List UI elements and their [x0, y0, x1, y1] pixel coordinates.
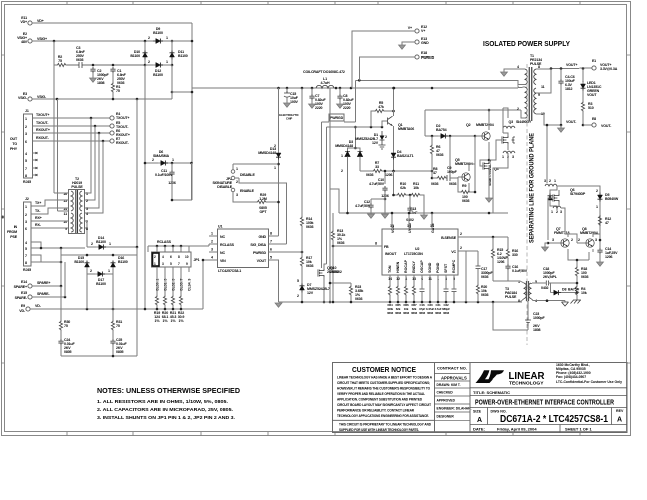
customer notice body text [337, 376, 433, 419]
resistor R8 47 [432, 177, 436, 179]
svg-text:SEPARATING LINE FOR GROUND PLA: SEPARATING LINE FOR GROUND PLANE [529, 133, 536, 243]
svg-text:8: 8 [518, 299, 520, 303]
connector J1 RJ45 [24, 114, 33, 178]
svg-text:SGND: SGND [428, 262, 432, 273]
svg-text:3: 3 [544, 179, 546, 183]
svg-text:SPARE-: SPARE- [15, 296, 28, 300]
svg-text:TECHNOLOGY APPLICATIONS ENGINE: TECHNOLOGY APPLICATIONS ENGINEERING FOR … [337, 414, 429, 418]
svg-text:3: 3 [162, 262, 164, 266]
svg-text:JP1: JP1 [194, 258, 200, 262]
svg-text:B-SENSE: B-SENSE [441, 236, 457, 240]
wire Q1 emitter feed to R10 [393, 171, 395, 195]
resistor R4 10k [576, 277, 578, 285]
wire bridge left leg [144, 41, 146, 65]
svg-text:2: 2 [596, 189, 598, 193]
svg-text:3: 3 [560, 210, 562, 214]
svg-text:1: 1 [108, 269, 110, 273]
ground R4 hatch [571, 300, 582, 304]
svg-text:4.7uH: 4.7uH [320, 81, 330, 85]
svg-text:DATE:: DATE: [473, 427, 485, 432]
svg-text:POWER-OVER-ETHERNET INTERFACE: POWER-OVER-ETHERNET INTERFACE CONTROLLER [475, 398, 614, 407]
svg-text:0603: 0603 [419, 311, 425, 315]
ground bus y302 [279, 301, 523, 303]
svg-text:Friday, April 09, 2004: Friday, April 09, 2004 [497, 427, 537, 432]
capacitor C13 4.7nF [409, 195, 411, 206]
svg-text:0603: 0603 [435, 311, 441, 315]
svg-text:RJ45: RJ45 [23, 180, 31, 184]
resistor R22 30.9 [179, 295, 182, 306]
svg-text:0603: 0603 [436, 153, 444, 157]
capacitor C8 [339, 88, 341, 94]
svg-text:0603: 0603 [411, 311, 417, 315]
svg-text:48V: 48V [21, 40, 28, 44]
svg-text:1. ALL RESISTORS ARE IN OHMS,: 1. ALL RESISTORS ARE IN OHMS, 1/10W, 5%,… [97, 399, 228, 405]
svg-text:TECHNOLOGY: TECHNOLOGY [509, 380, 544, 385]
svg-text:1: 1 [554, 179, 556, 183]
diode D12 B1100 [145, 64, 153, 66]
svg-text:CLS4_9: CLS4_9 [188, 278, 192, 291]
svg-text:1: 1 [211, 232, 213, 236]
svg-text:2: 2 [148, 60, 150, 64]
svg-text:LINEAR TECHNOLOGY HAS MADE A B: LINEAR TECHNOLOGY HAS MADE A BEST EFFORT… [337, 376, 433, 380]
svg-text:RXOUT-: RXOUT- [116, 141, 130, 145]
svg-text:2: 2 [460, 246, 462, 250]
svg-text:1000pF: 1000pF [533, 316, 545, 320]
svg-text:E18: E18 [421, 51, 427, 55]
svg-text:0603: 0603 [355, 297, 363, 301]
wire main top bus y88 [192, 87, 516, 89]
border tick marks bottom [67, 432, 580, 436]
svg-text:DC671A-2 * LTC4257CS8-1: DC671A-2 * LTC4257CS8-1 [500, 413, 608, 425]
svg-text:ENDLY: ENDLY [412, 261, 416, 273]
wire VOUT- to E8 [583, 124, 592, 126]
svg-text:CUSTOMER NOTICE: CUSTOMER NOTICE [352, 365, 416, 374]
svg-text:0603: 0603 [581, 275, 589, 279]
customer notice separator [333, 419, 435, 421]
svg-text:FROM: FROM [7, 230, 17, 234]
svg-text:1: 1 [172, 158, 174, 162]
lower bridge diode D17 B1100 [87, 273, 113, 275]
wire right rail x600 [557, 186, 600, 240]
svg-text:VD-: VD- [19, 309, 26, 313]
wire bias bus y213 [330, 189, 508, 213]
svg-text:GND: GND [421, 41, 429, 45]
svg-text:1: 1 [154, 262, 156, 266]
svg-text:2: 2 [25, 125, 27, 129]
wire T1 sec tap [536, 69, 551, 94]
svg-text:Fax: (408)434-0507: Fax: (408)434-0507 [556, 375, 586, 379]
svg-text:4: 4 [211, 256, 213, 260]
svg-text:1: 1 [596, 205, 598, 209]
wire J2 spare pins [31, 242, 85, 262]
svg-text:VSIG-: VSIG- [37, 95, 47, 99]
wire down to R2 [54, 41, 56, 65]
svg-text:APPROVALS: APPROVALS [441, 376, 467, 381]
J1 nc stubs [33, 153, 38, 175]
svg-text:9: 9 [186, 262, 188, 266]
terminal E18 PWRGD [415, 55, 419, 59]
svg-text:4: 4 [162, 255, 164, 259]
svg-text:7: 7 [178, 262, 180, 266]
svg-text:11: 11 [64, 212, 68, 216]
svg-text:VC: VC [451, 250, 456, 254]
resistor R5 47k [371, 111, 374, 127]
wire Q2 base rail [449, 136, 451, 175]
wire bridge lower left leg down [144, 65, 146, 309]
svg-text:510: 510 [588, 106, 594, 110]
wire JP2 bottom to R29 [233, 192, 256, 202]
svg-text:ROCAP: ROCAP [404, 259, 408, 273]
svg-text:CHECKED: CHECKED [437, 391, 454, 395]
svg-text:PSE: PSE [10, 235, 17, 239]
svg-text:47: 47 [433, 171, 437, 175]
svg-text:TITLE: SCHEMATIC: TITLE: SCHEMATIC [473, 390, 510, 395]
svg-text:3. INSTALL SHUNTS ON JP1 PIN: 3. INSTALL SHUNTS ON JP1 PIN 1 & 2, JP2 … [97, 415, 235, 421]
wire bridge right leg [171, 41, 173, 65]
node C1 tap [112, 64, 115, 67]
wire T3 sec bottom [531, 299, 565, 301]
border tick marks left [1, 55, 4, 363]
resistor R3 510 [582, 91, 584, 102]
svg-text:OUT: OUT [10, 137, 18, 141]
svg-text:1: 1 [166, 36, 168, 40]
wire JP2 middle to SIG_DISA rail [235, 178, 287, 244]
connector J2 RJ45 [24, 202, 32, 266]
isolation dashed line [526, 64, 528, 345]
resistor R30 75 [60, 286, 62, 320]
svg-text:1206: 1206 [385, 173, 393, 177]
resistor R17 10k [300, 256, 303, 267]
svg-text:OSCAP: OSCAP [420, 260, 424, 273]
svg-text:0.1uF,50V: 0.1uF,50V [512, 269, 528, 273]
svg-text:3: 3 [552, 238, 554, 242]
resistor R12 47 [598, 215, 601, 226]
svg-text:J2: J2 [25, 197, 29, 201]
svg-text:RXOUT-: RXOUT- [36, 136, 50, 140]
wire U1 VOUT to gnd [276, 260, 279, 302]
svg-text:DISABLE: DISABLE [217, 185, 232, 189]
resistor R1 75 [112, 73, 114, 82]
terminal E9 VD- [26, 307, 30, 311]
svg-text:RCLASS: RCLASS [157, 240, 172, 244]
svg-text:7: 7 [270, 240, 272, 244]
capacitor C3 6.8nF series [67, 62, 145, 68]
svg-text:MMSD4148: MMSD4148 [335, 144, 353, 148]
svg-text:VD-: VD- [35, 304, 42, 308]
svg-text:SMA/SMA: SMA/SMA [153, 154, 169, 158]
capacitor C10 4.7uF 50V [384, 171, 386, 184]
svg-text:1: 1 [109, 242, 111, 246]
svg-text:VOUT-: VOUT- [566, 120, 577, 124]
capacitor C4-C6 100uF [560, 69, 562, 80]
svg-text:PULSE: PULSE [71, 185, 83, 189]
svg-text:33: 33 [375, 165, 379, 169]
linear logo [476, 370, 505, 383]
svg-text:3: 3 [25, 132, 27, 136]
svg-text:TXOUT-: TXOUT- [36, 121, 49, 125]
svg-text:VSIG-: VSIG- [18, 96, 28, 100]
ground C13 [423, 213, 425, 215]
U2 bottom pin numbers [388, 277, 455, 281]
node D13 out [277, 163, 280, 166]
svg-text:0603: 0603 [403, 311, 409, 315]
svg-text:2: 2 [549, 179, 551, 183]
svg-text:2: 2 [556, 210, 558, 214]
wire VIN from VD- [203, 260, 209, 309]
svg-text:8: 8 [375, 242, 377, 246]
svg-text:RCLASS: RCLASS [220, 243, 235, 247]
svg-text:E9: E9 [21, 304, 25, 308]
svg-text:ISOLATED POWER SUPPLY: ISOLATED POWER SUPPLY [483, 41, 570, 48]
svg-text:SPARE+: SPARE+ [37, 281, 50, 285]
svg-text:PWRGD: PWRGD [253, 251, 267, 255]
svg-text:IN: IN [14, 225, 18, 229]
T1 secondary winding [534, 69, 536, 114]
node bridge out top [171, 40, 174, 43]
svg-text:8: 8 [178, 255, 180, 259]
svg-text:ENGINEER: DILAHAR.: ENGINEER: DILAHAR. [437, 407, 472, 411]
diode D8 BA754 [551, 290, 561, 295]
wire JP1 bottom pins down [157, 267, 189, 295]
svg-text:8: 8 [270, 232, 272, 236]
svg-text:0603: 0603 [462, 199, 470, 203]
svg-text:0603: 0603 [427, 311, 433, 315]
capacitor C16 47pF [420, 289, 425, 292]
wire D6 box bottom [172, 163, 192, 200]
svg-text:2: 2 [86, 199, 88, 203]
svg-text:NOTES: UNLESS OTHERWISE SPECI: NOTES: UNLESS OTHERWISE SPECIFIED [97, 386, 240, 395]
diode D5 B0540W [598, 193, 603, 202]
resistor R14 100k [301, 88, 303, 216]
svg-text:11: 11 [541, 85, 545, 89]
svg-text:J1: J1 [25, 109, 29, 113]
svg-text:VOUT: VOUT [587, 93, 597, 97]
svg-text:5: 5 [25, 159, 27, 163]
svg-text:A: A [617, 417, 622, 424]
ground below C2 [92, 73, 94, 78]
wire T1 primary pin 1 from bus [516, 87, 525, 88]
svg-text:1: 1 [86, 192, 88, 196]
svg-text:0603: 0603 [395, 311, 401, 315]
svg-text:6: 6 [25, 140, 27, 144]
svg-text:6: 6 [270, 248, 272, 252]
svg-text:OPT: OPT [260, 210, 268, 214]
svg-text:LTC-Confidential-For Customer: LTC-Confidential-For Customer Use Only [556, 380, 622, 384]
mosfet Q9 2N7002 [318, 269, 324, 277]
svg-text:2: 2 [91, 242, 93, 246]
svg-text:1: 1 [236, 167, 238, 171]
svg-text:BA754: BA754 [436, 128, 447, 132]
ground C10 [382, 214, 389, 218]
wire Q7 Q8 bases bus [545, 243, 548, 247]
rev column [611, 408, 613, 425]
svg-text:TXOUT+: TXOUT+ [36, 113, 49, 117]
svg-text:4: 4 [25, 241, 27, 245]
resistor R31 75 [112, 309, 114, 320]
capacitor C16b 0.1uF 50V [505, 264, 510, 270]
svg-text:2: 2 [148, 36, 150, 40]
wire D3 left leg down [347, 157, 349, 214]
svg-text:7: 7 [86, 220, 88, 224]
resistor R23 3.65k [350, 283, 352, 285]
node bridge in bottom [144, 64, 147, 67]
svg-text:RCMPC: RCMPC [452, 259, 456, 273]
terminal E8 VOUT- [592, 123, 596, 127]
svg-text:7: 7 [25, 254, 27, 258]
svg-text:VIN: VIN [220, 259, 226, 263]
svg-text:7: 7 [25, 167, 27, 171]
wire U1 SIG_DISA [276, 243, 287, 245]
svg-text:0603: 0603 [443, 311, 449, 315]
resistor R13 30.1k [333, 245, 372, 247]
node bridge in top [144, 40, 147, 43]
connector JP1 [152, 252, 192, 267]
capacitor C11 0.1uF [171, 162, 174, 165]
wire Q7/Q8 collector joins [568, 234, 593, 252]
wire U2 B-SENSE to dividers [466, 236, 508, 238]
svg-text:75: 75 [58, 59, 62, 63]
svg-text:V+: V+ [408, 26, 412, 30]
wire VC down to C17 [465, 251, 467, 302]
wire VD+ E11 to x192 [32, 22, 192, 24]
wire T1 sec bottom [536, 114, 561, 125]
address block [556, 363, 622, 384]
U2 bottom labels [387, 303, 450, 315]
svg-text:TXOUT+: TXOUT+ [116, 116, 129, 120]
svg-text:8: 8 [538, 65, 540, 69]
LED1 LN1351C GREEN [582, 69, 584, 83]
svg-text:MMBT2904: MMBT2904 [476, 123, 494, 127]
wire PWRGD line B to Q1 base [327, 126, 383, 128]
svg-text:1: 1 [25, 205, 27, 209]
svg-text:THIS CIRCUIT IS PROPRIETARY TO: THIS CIRCUIT IS PROPRIETARY TO LINEAR TE… [339, 423, 432, 427]
capacitor C12 4.7uF 50V [371, 199, 385, 203]
wire aux supply y80.3 [355, 80, 525, 84]
svg-text:NC: NC [220, 251, 225, 255]
svg-text:IN/OUT: IN/OUT [385, 252, 397, 256]
ground U1 VOUT [275, 303, 282, 307]
resistor R26 10k [404, 285, 407, 296]
svg-text:HOWEVER, IT REMAINS THE CUSTOM: HOWEVER, IT REMAINS THE CUSTOMER'S RESPO… [337, 387, 430, 391]
svg-text:1206: 1206 [605, 255, 613, 259]
svg-text:0603: 0603 [481, 293, 489, 297]
wire VD- long [30, 308, 203, 310]
svg-text:Q2: Q2 [466, 123, 471, 127]
svg-text:3: 3 [512, 155, 514, 159]
diode D11 B1100 [170, 51, 175, 60]
svg-text:2: 2 [236, 180, 238, 184]
wire Q3 gate from driver [489, 140, 502, 160]
PWRGD boxed label [329, 114, 344, 121]
svg-text:SUPPLIED FOR USE WITH LINEAR T: SUPPLIED FOR USE WITH LINEAR TECHNOLOGY … [339, 428, 419, 432]
node VSIG- x57 [56, 98, 59, 101]
capacitor C24 [60, 331, 62, 339]
wire bottom bus of snubber box [61, 355, 137, 357]
svg-text:2220: 2220 [343, 106, 351, 110]
svg-text:SHEET 1 OF 1: SHEET 1 OF 1 [565, 427, 592, 432]
svg-text:SPARE-: SPARE- [37, 292, 50, 296]
svg-text:VD+: VD+ [20, 20, 27, 24]
svg-text:75: 75 [64, 324, 68, 328]
IC U1 LTC4257CS8-1 [218, 229, 269, 268]
resistor R27 62k [412, 285, 415, 296]
svg-text:3: 3 [211, 248, 213, 252]
svg-text:0603: 0603 [387, 311, 393, 315]
svg-text:SI7940DP: SI7940DP [570, 192, 586, 196]
U2 top pins VCC UVLO GATE [391, 223, 435, 233]
svg-text:D8: D8 [562, 288, 566, 292]
wire VSIG+ [32, 40, 192, 42]
lower bridge diode D15 B1100 [61, 254, 137, 256]
svg-text:HINEN: HINEN [396, 261, 400, 273]
resistor R18 100 [575, 266, 578, 277]
svg-text:RX-: RX- [35, 223, 42, 227]
svg-text:VERIFY PROPER AND RELIABLE OPE: VERIFY PROPER AND RELIABLE OPERATION IN … [337, 392, 426, 396]
U2 left pin FB [372, 245, 382, 247]
svg-text:V+: V+ [421, 29, 425, 33]
svg-text:47: 47 [605, 221, 609, 225]
svg-text:62k: 62k [400, 186, 406, 190]
capacitor C7 [311, 88, 313, 94]
svg-text:PWRGD: PWRGD [421, 56, 435, 60]
svg-text:B1100: B1100 [96, 282, 106, 286]
svg-text:NC: NC [220, 235, 225, 239]
svg-text:3: 3 [595, 238, 597, 242]
resistor R20 68.1 [163, 295, 166, 306]
terminal E11 VD+ [28, 21, 32, 25]
svg-text:6: 6 [170, 255, 172, 259]
svg-text:E15: E15 [21, 291, 27, 295]
svg-text:3.3V@0.3A: 3.3V@0.3A [600, 67, 618, 71]
svg-text:0603: 0603 [481, 275, 489, 279]
svg-text:VOUT: VOUT [257, 259, 267, 263]
wire drops T2 secondary lower [84, 221, 87, 247]
svg-text:PHY: PHY [10, 147, 18, 151]
wire T2 left pins to J2 [31, 193, 69, 206]
svg-text:DRAWN: KIM T.: DRAWN: KIM T. [437, 383, 461, 387]
svg-text:5: 5 [170, 262, 172, 266]
svg-text:APPROVED: APPROVED [437, 399, 456, 403]
svg-text:B1100: B1100 [178, 54, 188, 58]
svg-text:4.7uF,50V: 4.7uF,50V [369, 182, 385, 186]
svg-text:VOUT-: VOUT- [601, 124, 612, 128]
svg-text:1808: 1808 [97, 81, 105, 85]
border zone dot left [1, 216, 3, 218]
svg-text:3: 3 [236, 193, 238, 197]
svg-text:0402: 0402 [406, 218, 414, 222]
svg-text:0805: 0805 [116, 350, 124, 354]
capacitor C21 4.7uF [452, 289, 457, 292]
wire D3 common to base line [354, 127, 356, 148]
capacitor C17 3300pF [466, 251, 478, 266]
capacitor C2 1000pF [90, 67, 95, 73]
terminal E15 SPARE- [28, 295, 32, 299]
terminal E1 VOUT+ [592, 66, 596, 70]
svg-text:2: 2 [297, 294, 299, 298]
wire U1 GND pin up [276, 235, 279, 237]
svg-text:2N7002: 2N7002 [330, 270, 342, 274]
svg-text:TON: TON [388, 265, 392, 273]
svg-text:B1100: B1100 [130, 54, 140, 58]
resistor R19 124 [155, 295, 158, 306]
svg-text:Q3: Q3 [509, 120, 514, 124]
customer notice box [333, 363, 435, 433]
capacitor C14 1uF 25V [599, 240, 601, 248]
wire lower bridge right leg [136, 247, 138, 255]
svg-text:TO: TO [12, 142, 17, 146]
svg-text:4.7uF,50V: 4.7uF,50V [355, 204, 371, 208]
svg-text:0603: 0603 [306, 264, 314, 268]
